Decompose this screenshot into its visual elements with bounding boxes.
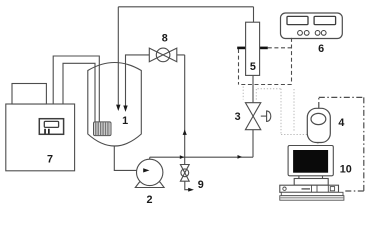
computer 10: system unit xyxy=(280,185,339,192)
valve 8 xyxy=(149,48,177,62)
svg-text:5: 5 xyxy=(250,61,256,73)
dash-dot signal: sensor4 to computer xyxy=(319,97,364,191)
wire: feed drop into vessel xyxy=(117,7,119,105)
controller 6 xyxy=(281,13,343,39)
feed arrow head right xyxy=(123,106,127,112)
riser up arrow head xyxy=(183,130,187,135)
valve 9 xyxy=(180,165,189,182)
svg-text:6: 6 xyxy=(318,43,324,55)
computer 10: monitor feet xyxy=(299,176,323,179)
control valve 3 xyxy=(245,103,270,130)
pipe arrow head mid (before T) xyxy=(180,155,185,159)
computer 10: monitor xyxy=(288,146,333,176)
wire: valve3 riser below xyxy=(252,130,254,158)
wire: heater wire A xyxy=(53,56,99,122)
svg-text:7: 7 xyxy=(47,154,53,166)
svg-text:8: 8 xyxy=(162,33,168,45)
rotameter 5 xyxy=(237,22,268,75)
wire: valve8 right to riser xyxy=(177,55,185,165)
dashed signal: rotameter to controller xyxy=(268,47,292,49)
vessel tank 1 xyxy=(88,63,142,147)
wire: heater wire B xyxy=(63,63,95,122)
svg-text:3: 3 xyxy=(235,111,241,123)
pump inlet arrow head xyxy=(143,168,149,172)
svg-text:4: 4 xyxy=(338,117,344,129)
valve9 drain arrow head xyxy=(188,188,194,192)
feed arrow head left xyxy=(116,105,120,111)
pump 2 xyxy=(135,159,164,187)
box 7 display xyxy=(39,119,63,135)
box 7 top module xyxy=(12,84,46,105)
computer 10: keyboard xyxy=(280,192,344,200)
computer 10: pedestal xyxy=(294,179,328,186)
wire: rotameter inlet drop xyxy=(253,7,255,22)
box 7 power supply xyxy=(6,104,75,171)
dashed signal: float-bar left drop xyxy=(238,49,240,85)
heater block in vessel xyxy=(94,122,112,136)
sensor 4 xyxy=(307,108,330,142)
dashed signal: controller down xyxy=(291,38,293,85)
svg-text:9: 9 xyxy=(198,179,204,191)
wire: vessel outlet to pump xyxy=(114,146,143,171)
wire: valve8 branch left + drop into vessel xyxy=(126,55,150,106)
svg-text:1: 1 xyxy=(122,115,128,127)
dashed signal: controller to valve3 xyxy=(239,84,292,86)
wire: top header pipe xyxy=(118,6,253,8)
svg-text:2: 2 xyxy=(146,194,152,206)
svg-text:10: 10 xyxy=(340,163,352,175)
dotted signal: valve3 area to computer path xyxy=(243,87,318,145)
pipe arrow head before valve3 bend xyxy=(238,155,243,159)
wire: valve9 drain xyxy=(185,181,189,190)
wire: pump outlet horizontal pipe xyxy=(150,157,253,159)
wire: valve3 to rotameter xyxy=(252,75,254,102)
